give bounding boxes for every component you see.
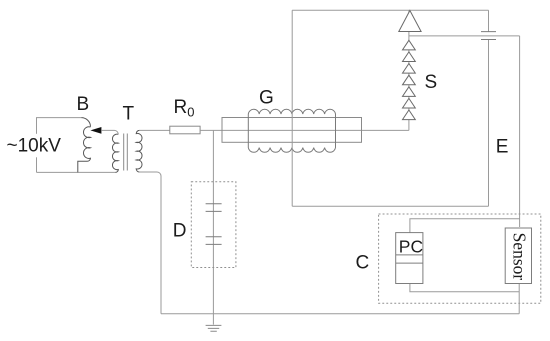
- svg-text:Sensor: Sensor: [510, 233, 530, 281]
- PC box divider 1: [396, 254, 423, 256]
- transformer T primary winding: [112, 134, 118, 172]
- capacitor D plates: [206, 204, 222, 245]
- autotransformer B winding: [78, 118, 91, 173]
- svg-text:S: S: [425, 72, 438, 93]
- spark gap stack S triangle 7: [403, 110, 416, 120]
- PC box: [396, 233, 423, 284]
- wire bottom rail: [161, 313, 519, 315]
- dashed box C: [379, 214, 541, 303]
- wire sensor bottom vertical: [518, 284, 520, 314]
- wire E vertical to Sensor: [519, 36, 521, 227]
- wire D branch vertical to ground: [212, 130, 214, 324]
- dashed box D: [191, 182, 236, 268]
- wire PC top to E line: [410, 219, 520, 233]
- ground: [206, 325, 222, 331]
- svg-text:~10kV: ~10kV: [7, 135, 62, 156]
- Sensor box: [505, 228, 531, 284]
- wire wiper to T primary: [101, 130, 118, 134]
- spark gap plates: [481, 32, 496, 40]
- spark gap stack S triangle 4: [403, 75, 416, 85]
- wire spark gap bottom lead: [488, 40, 490, 207]
- wire T secondary top to R0: [139, 129, 169, 131]
- spark gap stack S triangle 2: [403, 52, 416, 62]
- spark gap stack S triangle 6: [403, 98, 416, 108]
- coil G winding: [248, 109, 335, 152]
- svg-text:T: T: [123, 104, 135, 125]
- wire stack vertical: [408, 10, 410, 130]
- resistor R0: [170, 126, 200, 134]
- wiper arrow of B: [90, 127, 101, 134]
- coil G core tube: [222, 118, 362, 143]
- svg-text:B: B: [77, 94, 90, 115]
- text knockout: [34, 134, 41, 158]
- transformer T core: [124, 134, 128, 171]
- spark gap stack S triangle 5: [403, 87, 416, 97]
- wire T secondary bottom lead down to rail: [139, 172, 161, 314]
- wire E horizontal: [409, 35, 520, 37]
- transformer T secondary winding: [136, 130, 142, 172]
- wire source loop top+left: [37, 118, 82, 173]
- svg-text:C: C: [356, 252, 370, 273]
- svg-text:R0: R0: [174, 97, 195, 120]
- svg-text:E: E: [496, 137, 509, 158]
- wire PC bottom to sensor bottom: [410, 284, 519, 292]
- wire big loop bottom edge: [292, 205, 488, 207]
- PC box divider 2: [396, 262, 423, 264]
- spark gap stack S triangle 3: [403, 64, 416, 74]
- wire big loop top edge: [292, 9, 488, 11]
- spark gap stack S triangle 1: [403, 40, 416, 50]
- svg-text:D: D: [173, 220, 187, 241]
- wire R0 to spark stack corner: [200, 129, 409, 131]
- svg-text:PC: PC: [399, 237, 423, 257]
- wire bottom of source loop to transformer T primary: [37, 171, 116, 173]
- svg-text:G: G: [259, 88, 274, 109]
- corona electrode big triangle: [399, 11, 421, 32]
- wire big loop left edge through G center: [291, 10, 293, 206]
- wire spark gap top lead: [488, 10, 490, 31]
